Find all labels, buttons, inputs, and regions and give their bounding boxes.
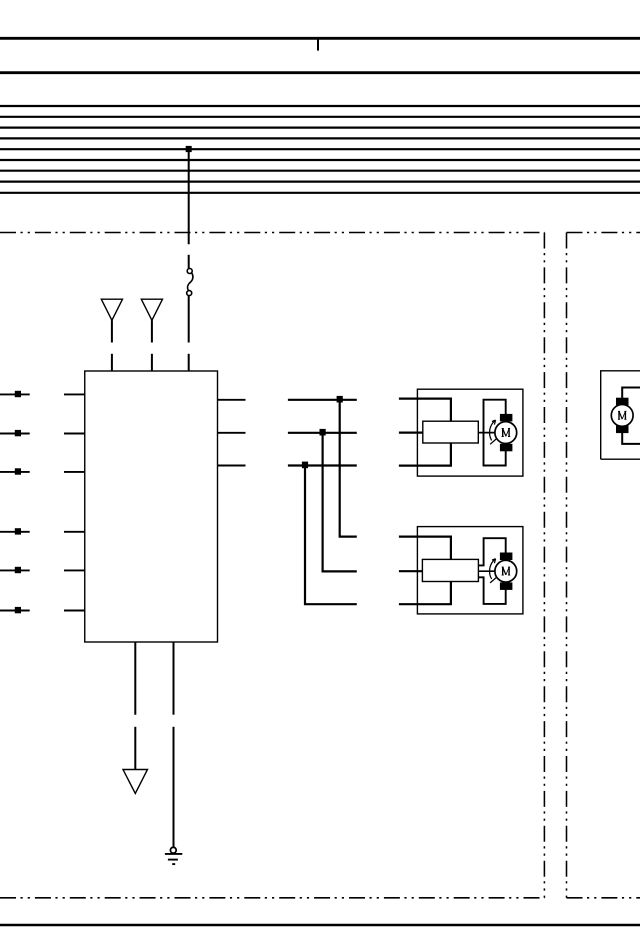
actuator unit 2 case <box>417 527 523 614</box>
wire bus B9 <box>0 170 640 172</box>
connector C1 <box>187 269 193 296</box>
motor M1 body <box>495 422 517 444</box>
wire L4 <box>0 531 30 533</box>
junction dot L3 <box>15 468 21 474</box>
wire actuator 2 block to motor <box>478 570 495 572</box>
wire actuator 1 block to motor <box>478 432 495 434</box>
junction dot M2 <box>320 429 326 436</box>
wire L6 stub to control unit <box>64 610 85 612</box>
wire bus B4 <box>0 116 640 118</box>
wire from bus B7 down <box>188 149 190 244</box>
wire segment above arrow A3 <box>134 727 136 770</box>
motor M2 supply loop upper <box>478 538 505 565</box>
motor unit 3 case <box>601 371 640 459</box>
wire bus B2 <box>0 71 640 74</box>
left section dashed border right <box>543 233 545 898</box>
motor M1 label <box>502 429 511 437</box>
wire below control unit to arrow A3 <box>134 642 136 715</box>
junction dot L1 <box>15 391 21 397</box>
tick mark on bus B1 <box>317 40 319 51</box>
wire M1 horizontal <box>288 399 357 401</box>
wire M3 horizontal <box>288 464 357 466</box>
wire into actuator 1 top <box>399 399 451 422</box>
wire into actuator 2 top <box>399 537 451 560</box>
junction dot L4 <box>15 528 21 534</box>
wire L5 <box>0 569 30 571</box>
right section dashed border left <box>566 233 568 898</box>
wire bus B8 <box>0 159 640 161</box>
motor M2 brush bottom <box>500 582 513 590</box>
wire L3 stub to control unit <box>64 471 85 473</box>
wire motor M3 bottom <box>622 433 640 444</box>
wire L1 stub to control unit <box>64 393 85 395</box>
wire L1 <box>0 393 30 395</box>
arrow A2 (from another circuit) <box>141 299 162 320</box>
wire segment above ground <box>173 727 175 847</box>
left section dashed border top <box>0 232 544 234</box>
motor M3 brush bottom <box>616 426 629 434</box>
motor M1 rotation arrow <box>490 420 497 444</box>
motor M2 label <box>502 567 511 575</box>
motor M2 body <box>495 560 517 582</box>
junction dot L2 <box>15 430 21 436</box>
actuator 1 switch block <box>423 421 479 443</box>
wire into control unit pin 2 <box>151 354 153 372</box>
wire pin R2 <box>218 432 246 434</box>
junction dot L5 <box>15 567 21 573</box>
motor M3 body <box>611 405 633 427</box>
wire L2 stub to control unit <box>64 433 85 435</box>
wire into control unit pin 1 <box>111 354 113 372</box>
motor M3 brush top <box>616 398 629 406</box>
actuator unit 1 case <box>417 389 523 476</box>
wire pin R3 <box>218 465 246 467</box>
wire L6 <box>0 610 30 612</box>
wire M1 branch down <box>340 400 357 537</box>
junction dot L6 <box>15 607 21 613</box>
wire into actuator 1 bottom <box>399 443 451 466</box>
wire bus B6 <box>0 137 640 139</box>
wire L3 <box>0 471 30 473</box>
wire bus B1 <box>0 37 640 40</box>
motor M2 supply loop lower <box>478 577 505 604</box>
wire L4 stub to control unit <box>64 531 85 533</box>
junction dot M1 <box>337 396 343 403</box>
motor M2 rotation arrow <box>490 559 497 583</box>
wire bus B10 <box>0 181 640 183</box>
left section dashed border bottom <box>0 897 544 899</box>
wire below arrow A1 <box>111 320 113 342</box>
motor M1 brush bottom <box>500 444 513 452</box>
junction dot M3 <box>302 462 308 469</box>
wire L2 <box>0 433 30 435</box>
wire below control unit to ground <box>173 642 175 715</box>
wire motor M3 top <box>622 388 640 399</box>
wire below arrow A2 <box>151 320 153 342</box>
motor M1 supply loop <box>484 400 506 466</box>
wire M3 branch down <box>305 466 357 605</box>
actuator 2 switch block <box>422 559 478 581</box>
wire L5 stub to control unit <box>64 569 85 571</box>
junction dot on bus B7 <box>186 146 192 152</box>
bottom page border <box>0 924 640 927</box>
wire pin R1 <box>218 399 246 401</box>
wire M2 branch down <box>323 433 357 572</box>
wire bus B7 <box>0 148 640 150</box>
wire segment below connector <box>188 296 190 343</box>
motor M1 brush top <box>500 414 513 422</box>
right section dashed border top <box>567 232 640 234</box>
wire into actuator 2 bottom <box>399 582 451 605</box>
ground G1 <box>165 847 182 864</box>
wire into control unit pin 3 <box>188 354 190 372</box>
motor M3 label <box>618 411 627 419</box>
wire into actuator 2 middle <box>399 570 423 572</box>
wire bus B11 <box>0 192 640 194</box>
motor M2 brush top <box>500 553 513 561</box>
wire segment above connector <box>188 255 190 268</box>
wire bus B5 <box>0 126 640 128</box>
door lock control unit U1 <box>85 371 218 642</box>
wire bus B3 <box>0 105 640 107</box>
arrow A3 (to another circuit) <box>123 770 148 794</box>
right section dashed border bottom <box>567 897 640 899</box>
wire into actuator 1 middle <box>399 432 423 434</box>
wire M2 horizontal <box>288 432 357 434</box>
arrow A1 (from another circuit) <box>101 299 122 320</box>
